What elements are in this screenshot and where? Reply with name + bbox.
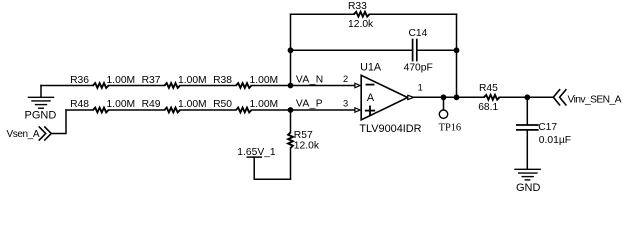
wire output right [500,96,554,98]
svg-text:R37: R37 [142,75,161,86]
test point TP16 [439,97,462,133]
wire output left [414,96,484,98]
junction at VA_N / feedback rail [288,83,294,89]
svg-text:R50: R50 [213,99,232,110]
svg-text:R36: R36 [70,75,89,86]
svg-text:VA_N: VA_N [296,75,324,86]
wire top branch left [291,13,355,15]
svg-text:R38: R38 [213,75,232,86]
svg-text:1.00M: 1.00M [250,99,279,110]
svg-text:1.00M: 1.00M [107,75,136,86]
svg-text:GND: GND [516,182,541,194]
svg-text:R33: R33 [348,1,367,12]
svg-text:U1A: U1A [360,61,382,73]
wire right feedback rail [456,14,458,97]
junction at C17 / output [524,94,530,100]
wire middle branch left [291,49,413,51]
svg-text:68.1: 68.1 [478,102,498,113]
resistor R37 [142,75,207,88]
wire row2 VA_P segments [66,109,93,111]
svg-text:VA_P: VA_P [296,99,323,110]
svg-text:1.00M: 1.00M [107,99,136,110]
junction at VA_P / R57 [288,107,294,113]
svg-text:R45: R45 [479,83,498,94]
capacitor C17 [517,122,571,146]
svg-text:Vinv_SEN_A: Vinv_SEN_A [568,94,622,105]
svg-text:12.0k: 12.0k [294,140,320,151]
wire Vsen_A stub [51,110,66,134]
svg-text:R49: R49 [142,99,161,110]
svg-text:1: 1 [418,82,423,92]
svg-text:PGND: PGND [25,109,57,121]
wire middle branch right [417,49,456,51]
svg-text:1.65V_1: 1.65V_1 [237,147,276,158]
svg-text:1.00M: 1.00M [178,75,207,86]
resistor R36 [70,75,135,88]
port Vinv_SEN_A [553,90,621,106]
wire R57 bottom loop [254,148,290,179]
svg-text:A: A [367,92,375,104]
wire row1 VA_N segments [41,85,93,87]
ground PGND [25,86,57,122]
svg-text:1.00M: 1.00M [250,75,279,86]
junction at right rail / output [454,94,460,100]
svg-text:0.01µF: 0.01µF [539,135,571,146]
op-amp U1A [355,61,422,134]
resistor R45 [478,83,499,113]
svg-text:12.0k: 12.0k [348,19,374,30]
port Vsen_A [7,127,52,140]
svg-text:C14: C14 [409,28,428,39]
resistor R33 [348,1,374,30]
svg-text:R48: R48 [70,99,89,110]
junction at TP16 [441,94,447,100]
wire C17 top stub [526,97,528,125]
svg-text:Vsen_A: Vsen_A [7,129,40,140]
wire left feedback rail [290,14,292,85]
capacitor C14 [404,28,433,73]
ground GND [515,169,541,194]
resistor R48 [70,99,135,113]
wire C17 bottom stub [526,130,528,169]
svg-text:2: 2 [343,74,348,84]
junction at left rail / C14 branch [288,47,294,53]
wire top branch right [370,13,457,15]
svg-text:TP16: TP16 [439,122,462,133]
resistor R57 [288,130,320,151]
svg-text:TLV9004IDR: TLV9004IDR [359,123,421,135]
wire R57 top stub [290,110,292,133]
resistor R38 [213,75,278,88]
svg-text:1.00M: 1.00M [178,99,207,110]
svg-text:3: 3 [343,98,348,108]
svg-text:470pF: 470pF [404,63,433,74]
junction at right rail / C14 branch [454,47,460,53]
resistor R50 [213,99,278,113]
svg-text:C17: C17 [538,122,557,133]
resistor R49 [142,99,207,113]
power 1.65V_1 [237,147,276,158]
